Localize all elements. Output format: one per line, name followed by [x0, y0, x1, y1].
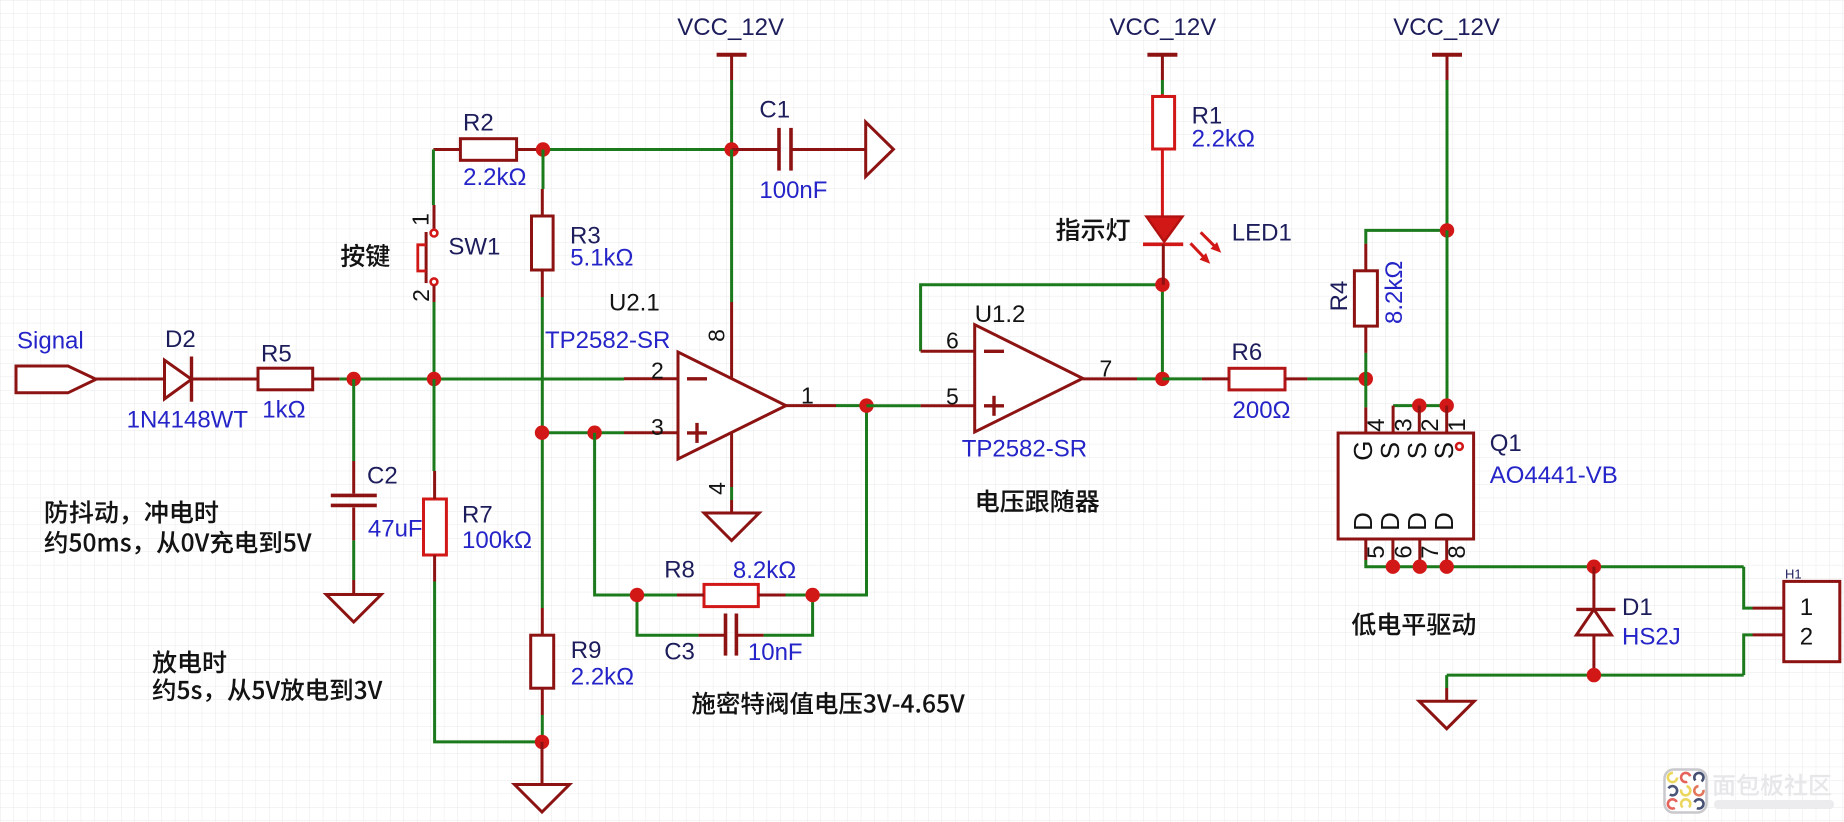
- svg-text:R4: R4: [1326, 281, 1353, 312]
- wire: [637, 595, 698, 635]
- power flag VCC_12V (net VCC_12V, over Q1): [1432, 53, 1462, 57]
- wire: [433, 302, 436, 379]
- wire: [730, 487, 733, 500]
- annotation 施密特阀值电压3V-4.65V: [692, 692, 965, 715]
- wire: [340, 378, 624, 381]
- wire: [1137, 377, 1162, 380]
- svg-text:Q1: Q1: [1490, 430, 1522, 457]
- junction: [535, 735, 549, 749]
- wire: [543, 148, 732, 151]
- svg-text:4: 4: [704, 482, 730, 495]
- resistor R6: [1229, 368, 1285, 390]
- wire: [1393, 404, 1447, 407]
- resistor R1: [1153, 97, 1175, 150]
- svg-text:S: S: [1375, 442, 1405, 459]
- wire: [352, 540, 355, 580]
- svg-text:2.2kΩ: 2.2kΩ: [463, 164, 526, 191]
- svg-text:5: 5: [946, 384, 959, 410]
- resistor R4: [1354, 271, 1377, 326]
- svg-text:2: 2: [1417, 418, 1444, 431]
- wire: [730, 150, 733, 303]
- wire: [764, 595, 813, 635]
- svg-text:D2: D2: [165, 326, 196, 353]
- wire: [352, 379, 355, 461]
- annotation 约50ms，从0V充电到5V: [45, 531, 312, 555]
- svg-text:2.2kΩ: 2.2kΩ: [1192, 126, 1255, 153]
- svg-text:4: 4: [1363, 418, 1390, 431]
- svg-text:VCC_12V: VCC_12V: [677, 14, 784, 41]
- svg-text:2: 2: [408, 289, 434, 302]
- junction: [587, 426, 601, 440]
- LED LED1: [1146, 217, 1182, 242]
- svg-text:R6: R6: [1232, 339, 1263, 366]
- svg-text:2: 2: [1800, 624, 1813, 651]
- power flag VCC_12V (net VCC_12V, over U2.1 pin 8): [717, 53, 747, 57]
- svg-text:100nF: 100nF: [759, 177, 827, 204]
- wire: [541, 297, 544, 433]
- wire: [435, 582, 542, 742]
- wire: [1161, 285, 1164, 379]
- ground: [730, 500, 733, 513]
- capacitor C2: [352, 461, 355, 494]
- capacitor C3: [698, 634, 724, 637]
- annotation 低电平驱动 (active-low drive): [1352, 612, 1475, 635]
- wire: [1366, 230, 1447, 243]
- junction: [1155, 278, 1169, 292]
- resistor R9: [531, 635, 554, 688]
- svg-text:2: 2: [651, 358, 664, 384]
- svg-text:1: 1: [1444, 418, 1471, 431]
- svg-text:Signal: Signal: [17, 328, 84, 355]
- wire: [637, 594, 677, 597]
- svg-text:8.2kΩ: 8.2kΩ: [1381, 261, 1408, 324]
- wire: [786, 594, 813, 597]
- svg-text:1: 1: [408, 213, 434, 226]
- wire: [1364, 353, 1367, 379]
- wire: [542, 150, 545, 190]
- svg-text:100kΩ: 100kΩ: [462, 527, 532, 554]
- wire: [1307, 377, 1365, 380]
- annotation 指示灯 (indicator light): [1056, 218, 1130, 241]
- ground: [352, 580, 355, 595]
- annotation 约5s，从5V放电到3V: [153, 678, 383, 702]
- svg-text:1: 1: [1800, 594, 1813, 621]
- watermark text: [1713, 774, 1831, 797]
- junction: [724, 142, 738, 156]
- wire: [1446, 230, 1449, 405]
- svg-text:6: 6: [946, 327, 959, 353]
- svg-text:10nF: 10nF: [748, 639, 803, 666]
- wire: [1446, 80, 1449, 230]
- junction: [1386, 560, 1400, 574]
- svg-text:6: 6: [1390, 545, 1417, 558]
- svg-text:D1: D1: [1622, 594, 1653, 621]
- svg-text:3: 3: [1390, 418, 1417, 431]
- svg-text:2.2kΩ: 2.2kΩ: [571, 664, 634, 691]
- svg-text:S: S: [1429, 442, 1459, 459]
- wire: [1364, 379, 1367, 408]
- svg-text:5: 5: [1363, 545, 1390, 558]
- svg-text:D: D: [1375, 512, 1405, 531]
- svg-text:TP2582-SR: TP2582-SR: [545, 327, 670, 354]
- op-amp U1.2: [975, 325, 1083, 432]
- svg-text:1N4148WT: 1N4148WT: [127, 407, 249, 434]
- resistor R8: [704, 584, 758, 606]
- junction: [535, 426, 549, 440]
- resistor R7: [424, 499, 447, 555]
- svg-text:5.1kΩ: 5.1kΩ: [570, 245, 633, 272]
- wire: [1366, 560, 1744, 567]
- capacitor C1: [732, 148, 778, 151]
- transistor Q1 AO4441-VB: [1338, 433, 1474, 539]
- junction: [1359, 372, 1373, 386]
- wire: [541, 433, 544, 608]
- svg-text:TP2582-SR: TP2582-SR: [962, 436, 1087, 463]
- junction: [1155, 372, 1169, 386]
- svg-text:7: 7: [1100, 356, 1113, 382]
- svg-text:R7: R7: [462, 502, 493, 529]
- svg-text:8.2kΩ: 8.2kΩ: [733, 557, 796, 584]
- wire: [1744, 567, 1753, 608]
- svg-text:3: 3: [651, 414, 664, 440]
- wire: [921, 285, 1163, 352]
- svg-text:7: 7: [1417, 545, 1444, 558]
- svg-text:H1: H1: [1785, 567, 1802, 582]
- svg-text:R9: R9: [571, 637, 602, 664]
- connector H1: [1784, 581, 1840, 661]
- svg-text:1kΩ: 1kΩ: [262, 397, 305, 424]
- wire: [1162, 377, 1202, 380]
- svg-text:VCC_12V: VCC_12V: [1110, 14, 1217, 41]
- wire: [541, 715, 544, 742]
- wire: [542, 431, 624, 434]
- svg-text:U2.1: U2.1: [609, 290, 660, 317]
- junction: [1440, 398, 1454, 412]
- wire: [433, 379, 436, 471]
- svg-text:AO4441-VB: AO4441-VB: [1490, 462, 1618, 489]
- wire: [1161, 80, 1164, 94]
- svg-text:G: G: [1348, 440, 1378, 460]
- wire: [813, 406, 867, 595]
- junction: [1440, 223, 1454, 237]
- svg-text:C2: C2: [367, 463, 398, 490]
- svg-text:R5: R5: [261, 341, 292, 368]
- wire: [1445, 675, 1448, 688]
- junction: [1587, 560, 1601, 574]
- port Signal: [16, 366, 96, 393]
- svg-text:R2: R2: [463, 110, 494, 137]
- junction: [347, 372, 361, 386]
- junction: [1413, 560, 1427, 574]
- svg-text:D: D: [1348, 512, 1378, 531]
- svg-text:S: S: [1402, 442, 1432, 459]
- svg-text:C3: C3: [664, 639, 695, 666]
- junction: [859, 398, 873, 412]
- resistor R2: [460, 139, 516, 161]
- power flag VCC_12V (net VCC_12V, over R1): [1147, 53, 1177, 57]
- junction: [427, 372, 441, 386]
- svg-text:8: 8: [704, 329, 730, 342]
- wire: [836, 404, 867, 407]
- wire: [1447, 674, 1744, 677]
- svg-text:C1: C1: [759, 97, 790, 124]
- svg-text:D: D: [1429, 512, 1459, 531]
- svg-text:R8: R8: [664, 557, 695, 584]
- resistor R5: [258, 368, 313, 390]
- watermark logo: [1665, 770, 1707, 813]
- svg-text:U1.2: U1.2: [975, 301, 1026, 328]
- wire: [730, 80, 733, 150]
- switch SW1: [433, 205, 436, 230]
- svg-text:LED1: LED1: [1232, 220, 1292, 247]
- junction: [630, 588, 644, 602]
- junction: [536, 142, 550, 156]
- wire: [595, 433, 637, 595]
- annotation 电压跟随器 (voltage follower): [978, 489, 1100, 512]
- op-amp U2.1: [678, 352, 786, 459]
- annotation 放电时: [153, 650, 227, 673]
- wire: [1744, 635, 1753, 675]
- junction: [805, 588, 819, 602]
- resistor R3: [532, 216, 554, 270]
- junction: [1587, 668, 1601, 682]
- wire: [867, 404, 921, 407]
- svg-text:VCC_12V: VCC_12V: [1393, 14, 1500, 41]
- svg-text:HS2J: HS2J: [1622, 624, 1681, 651]
- ground: [541, 742, 544, 785]
- output port arrow: [866, 122, 894, 176]
- svg-text:8: 8: [1444, 545, 1471, 558]
- svg-text:SW1: SW1: [448, 234, 500, 261]
- diode D1: [1592, 567, 1595, 610]
- ground: [1445, 688, 1448, 701]
- svg-text:47uF: 47uF: [368, 516, 423, 543]
- svg-text:1: 1: [801, 383, 814, 409]
- junction: [1440, 560, 1454, 574]
- annotation 按键 (push button): [341, 244, 390, 268]
- wire: [96, 378, 138, 381]
- wire: [432, 150, 435, 206]
- junction: [1412, 398, 1426, 412]
- annotation 防抖动，冲电时: [46, 500, 218, 524]
- diode D2: [165, 360, 192, 399]
- svg-text:D: D: [1402, 512, 1432, 531]
- svg-text:200Ω: 200Ω: [1233, 397, 1291, 424]
